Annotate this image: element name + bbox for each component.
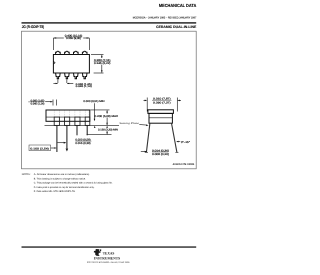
svg-text:0.100 (2,54): 0.100 (2,54) [30,147,49,150]
top leads (4) [56,51,87,54]
svg-text:0.355 (9,00): 0.355 (9,00) [66,37,81,40]
TI logo symbol [94,249,102,256]
dim 0.023/0.015 lead width [58,139,92,145]
svg-text:Seating Plane: Seating Plane [119,122,140,125]
svg-text:MCER002A – JANUARY 1995 – REVI: MCER002A – JANUARY 1995 – REVISED JANUAR… [133,16,197,19]
svg-text:JG (R-GDIP-T8): JG (R-GDIP-T8) [22,25,45,29]
svg-text:0.200 (5,08) MAX: 0.200 (5,08) MAX [95,115,119,118]
boxed 0.100 pitch [29,145,57,151]
dim 0.014/0.008 lead thickness [141,149,169,156]
svg-text:0.020 (0,51) MIN: 0.020 (0,51) MIN [83,100,104,103]
dim 0.280/0.245 right [91,55,111,74]
angle 0-15 label [176,141,190,144]
svg-text:4040107/B 03/95: 4040107/B 03/95 [173,163,195,166]
svg-text:B. This drawing is subject to: B. This drawing is subject to change wit… [34,177,86,180]
small arrow below seating at x 94.7 [94,126,96,128]
leads splayed [146,123,177,152]
dim 0.130 MIN [87,126,119,135]
dim 0.065/0.045 shoulder width [28,99,56,105]
seating plane line [45,124,120,126]
lid seal line [46,116,90,118]
svg-text:0.015 (0,38): 0.015 (0,38) [75,142,90,145]
svg-text:D. Index point is provided on: D. Index point is provided on cap for te… [34,186,95,189]
svg-text:0.008 (0,20): 0.008 (0,20) [152,153,169,156]
svg-text:0.245 (6,22): 0.245 (6,22) [94,62,111,65]
svg-text:0.290 (7,37): 0.290 (7,37) [153,102,171,105]
dim 0.400/0.355 top [53,35,89,50]
svg-text:0.045 (1,14): 0.045 (1,14) [31,103,45,106]
lead shoulders (4) [54,117,90,125]
svg-text:E. Falls within MIL-STD-1835: E. Falls within MIL-STD-1835 GDIP1-T8. [34,190,76,193]
svg-text:MECHANICAL DATA: MECHANICAL DATA [159,3,197,8]
svg-text:NOTES:: NOTES: [22,173,31,176]
down arrow at long lead 2 [66,149,69,152]
dim lead width bottom of top view [53,80,92,88]
svg-text:0.045 (1,14): 0.045 (1,14) [76,85,92,88]
bottom leads (4) [56,73,87,79]
dim 0.200 MAX [91,110,119,126]
seating plane label [119,122,148,126]
drawing frame box [22,31,197,169]
package body front view [46,110,90,121]
package body top view [53,55,89,74]
leads (narrow) [57,126,87,153]
svg-text:CERAMIC DUAL-IN-LINE: CERAMIC DUAL-IN-LINE [156,25,197,29]
header rule [22,22,197,23]
pin 1 index notch [53,61,55,64]
svg-text:POST OFFICE BOX 655303 • DALLA: POST OFFICE BOX 655303 • DALLAS, TEXAS 7… [87,261,130,264]
hidden lead lines inside body [54,111,89,118]
svg-text:0°–15°: 0°–15° [181,141,190,144]
svg-text:TEXAS: TEXAS [103,251,115,255]
lid [148,110,174,114]
svg-text:A. All linear dimensions are: A. All linear dimensions are in inches (… [34,173,90,176]
footer rule [22,246,197,247]
svg-text:0.130 (3,30) MIN: 0.130 (3,30) MIN [98,128,118,131]
svg-text:C. This package can be hermet: C. This package can be hermetically seal… [34,182,113,185]
label 0.020 MIN [83,100,104,121]
body [149,113,172,123]
dim 0.310/0.290 [144,98,182,112]
svg-text:INSTRUMENTS: INSTRUMENTS [94,256,120,260]
